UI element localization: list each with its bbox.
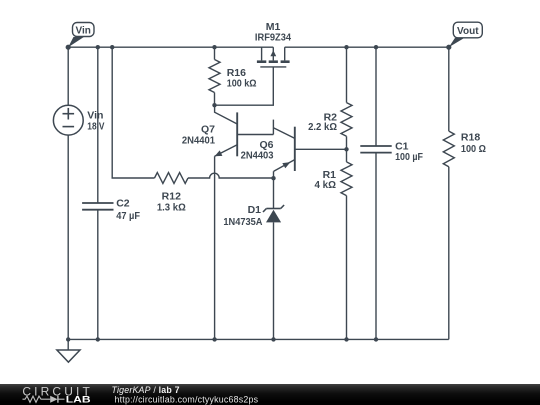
svg-text:R18: R18: [461, 132, 480, 144]
logo diode glyph: [50, 396, 57, 403]
svg-text:LAB: LAB: [66, 394, 91, 405]
wire: ground rail: [68, 338, 449, 340]
svg-text:http://circuitlab.com/ctyykuc6: http://circuitlab.com/ctyykuc68s2ps: [115, 395, 259, 405]
wire: R18 top lead: [448, 47, 450, 131]
resistor R16 100k: [209, 60, 220, 93]
svg-text:18 V: 18 V: [87, 121, 104, 133]
net label Vin: [68, 23, 94, 48]
transistor Q7 base bar: [236, 112, 238, 156]
node Vin anchor dot: [66, 45, 71, 50]
svg-text:2N4403: 2N4403: [241, 149, 274, 161]
wire: R1 bottom lead: [346, 196, 348, 340]
wire: R12 right with hop over emitter: [188, 173, 274, 178]
wire: Q6 collector stub: [272, 120, 274, 135]
wire: R18 bottom lead: [448, 167, 450, 340]
svg-text:100 Ω: 100 Ω: [461, 143, 486, 155]
logo resistor glyph: [23, 396, 51, 402]
wire: D1 bottom lead: [273, 222, 275, 339]
wire: C2 top lead: [97, 47, 99, 203]
junction dot rail-C1: [374, 337, 378, 341]
ground: [57, 339, 80, 362]
svg-text:100 µF: 100 µF: [395, 151, 423, 163]
wire: Q7 emitter to ground rail: [214, 156, 216, 339]
svg-text:D1: D1: [248, 204, 262, 216]
junction dot rail-source: [66, 337, 70, 341]
junction dot gate node: [212, 103, 216, 107]
svg-text:2N4401: 2N4401: [182, 135, 215, 147]
transistor Q6 base bar: [294, 127, 296, 171]
transistor M1 PMOS source stub: [261, 47, 263, 60]
svg-text:100 kΩ: 100 kΩ: [227, 78, 257, 90]
resistor R1 4k: [341, 162, 352, 196]
junction dot R2 top: [344, 45, 348, 49]
wire: Q7 collector stub: [215, 105, 238, 124]
wire: R1 top lead: [346, 149, 348, 162]
net label Vout: [449, 22, 483, 47]
wire: Q6 base lead: [295, 148, 347, 150]
wire: Q7 base lead: [237, 134, 273, 136]
wire: M1 gate to R16 bottom: [215, 67, 274, 105]
wire: D1 top lead: [273, 178, 275, 208]
transistor M1 channel bars: [257, 60, 290, 63]
svg-text:Vout: Vout: [457, 26, 479, 37]
junction dot rail-R1: [344, 337, 348, 341]
resistor R18 100: [443, 131, 454, 167]
junction dot C1 top: [374, 45, 378, 49]
junction dot rail-Q7emitter: [212, 337, 216, 341]
junction dot rail-C2: [96, 337, 100, 341]
resistor R2 2.2k: [341, 103, 352, 137]
capacitor C1: [360, 146, 391, 153]
transistor M1 PMOS drain stub: [284, 47, 286, 60]
svg-text:IRF9Z34: IRF9Z34: [255, 32, 291, 44]
wire: R2 top lead: [346, 47, 348, 102]
junction dot divider: [344, 147, 348, 151]
svg-text:TigerKAP / lab 7: TigerKAP / lab 7: [112, 385, 180, 395]
diode D1 zener 1N4735A: [263, 205, 284, 222]
junction dot R16 top: [212, 45, 216, 49]
svg-text:47 µF: 47 µF: [116, 210, 140, 222]
wire: Vin top rail (Vin node): [68, 46, 273, 48]
capacitor C2: [82, 203, 113, 210]
svg-text:1N4735A: 1N4735A: [223, 216, 262, 228]
wire: C1 bottom lead: [375, 153, 377, 340]
junction dot R12 riser: [110, 45, 114, 49]
transistor Q6 emitter with arrow: [274, 160, 295, 171]
svg-text:1.3 kΩ: 1.3 kΩ: [157, 202, 186, 214]
footer bar: [0, 384, 540, 405]
wire: R16 bottom lead: [214, 93, 216, 106]
junction dot zener node: [271, 176, 275, 180]
wire: source bottom lead: [67, 135, 69, 339]
wire: Q6 emitter down to node: [273, 171, 275, 178]
wire: source top lead: [67, 47, 69, 105]
svg-text:R12: R12: [162, 190, 181, 202]
wire: R16 top lead: [214, 47, 216, 59]
node Vout anchor dot: [446, 45, 451, 50]
wire: R12 left riser from Vin rail: [112, 47, 154, 178]
resistor R12 1.3k: [155, 173, 189, 184]
wire: C2 bottom lead: [97, 210, 99, 340]
voltage source Vin 18V: [53, 105, 83, 135]
junction dot C2 top: [96, 45, 100, 49]
svg-text:2.2 kΩ: 2.2 kΩ: [308, 121, 337, 133]
svg-text:C2: C2: [116, 198, 130, 210]
wire: R2 bottom lead: [346, 136, 348, 149]
transistor M1 gate bar: [260, 66, 286, 68]
wire: Vout top rail (Vout node): [285, 46, 449, 48]
transistor Q7 emitter with arrow: [215, 145, 238, 157]
junction dot rail-D1: [271, 337, 275, 341]
svg-text:4 kΩ: 4 kΩ: [315, 179, 337, 191]
svg-text:Vin: Vin: [76, 26, 91, 37]
transistor M1 PMOS body stub with arrow: [272, 47, 274, 60]
wire: C1 top lead: [375, 47, 377, 146]
